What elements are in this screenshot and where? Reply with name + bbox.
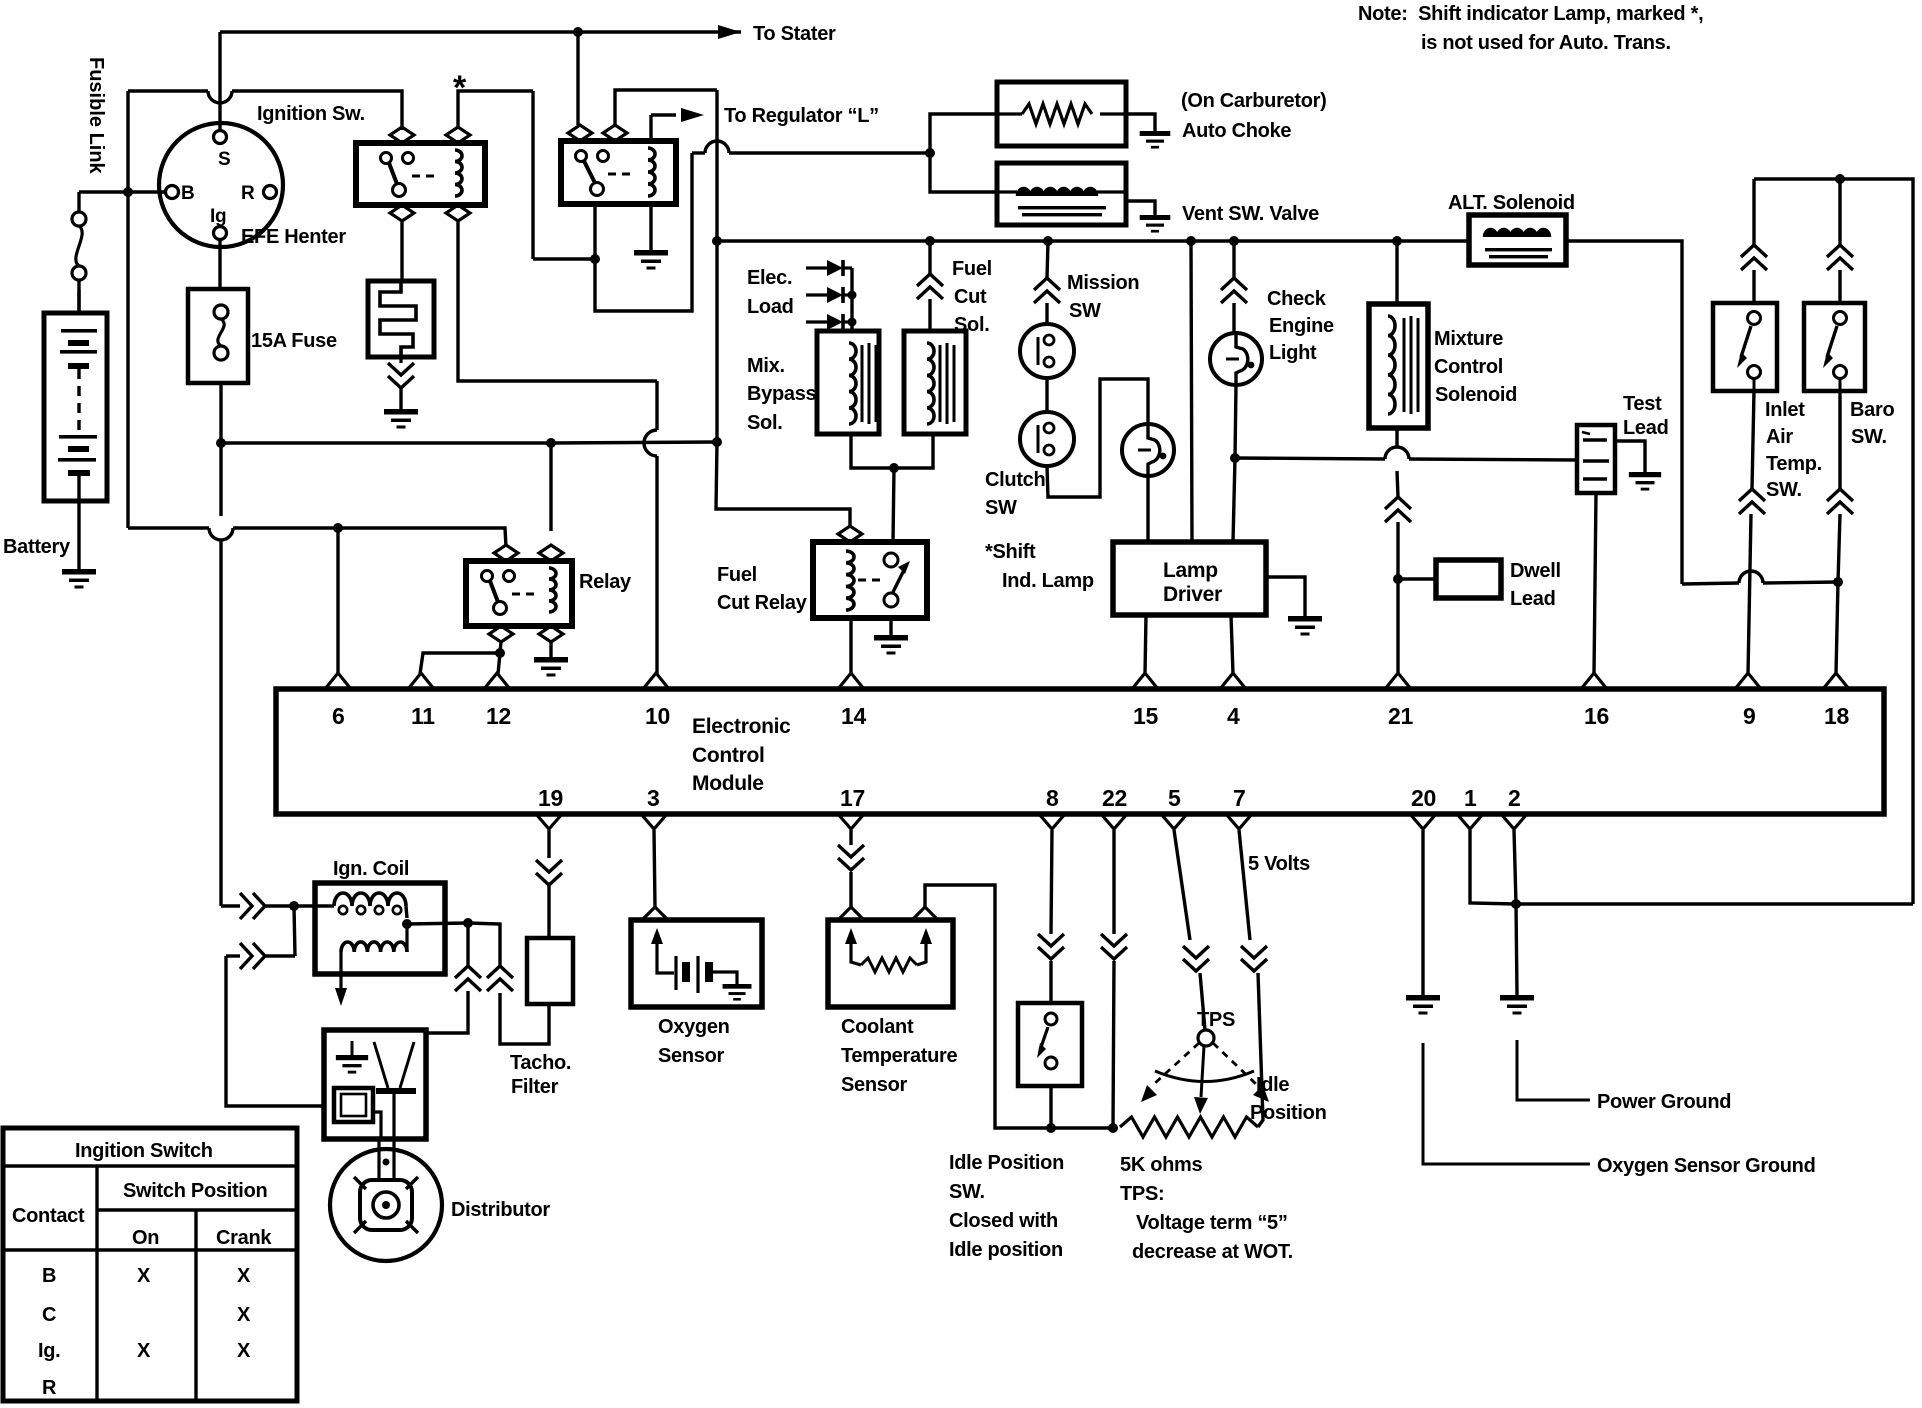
relay K3 body bbox=[466, 545, 572, 642]
label Ignition Sw. bbox=[257, 103, 365, 125]
wire mixture down3 bbox=[1396, 522, 1399, 579]
wire mixture down2 bbox=[1397, 471, 1398, 497]
label Fuel bbox=[717, 564, 757, 586]
wire coil feed2 bbox=[266, 904, 294, 907]
node dwell bbox=[1393, 574, 1403, 584]
pin 10 top bbox=[643, 673, 670, 729]
inlet air temp switch SW4 bbox=[1713, 303, 1777, 391]
igniter transistor symbol bbox=[374, 1042, 416, 1139]
node y153 choke branch bbox=[925, 148, 935, 158]
wire node down and right bbox=[595, 153, 692, 311]
wire lampdriver pin15 bbox=[1145, 615, 1146, 674]
label Vent SW. Valve bbox=[1182, 203, 1319, 225]
node bus checkengine bbox=[1229, 236, 1239, 246]
label Ign. Coil bbox=[333, 858, 409, 880]
node sol join bbox=[889, 463, 899, 473]
oxygen sensor B2 body bbox=[631, 920, 762, 1007]
node idle sw bbox=[1046, 1123, 1056, 1133]
wire relayA diamond2 down bbox=[458, 221, 657, 381]
ground battery bbox=[62, 569, 96, 589]
wire baro drop2 bbox=[1838, 270, 1841, 303]
wire bulb to node bbox=[1235, 385, 1236, 458]
wire y528 left bbox=[128, 526, 209, 529]
TPS wiper bbox=[1141, 1030, 1269, 1114]
arrow HT lead bbox=[335, 976, 347, 1006]
wire left riser x128 bbox=[126, 91, 129, 192]
wire second feed2 bbox=[266, 954, 295, 957]
fuse 15A bbox=[188, 289, 248, 383]
svg-text:11: 11 bbox=[411, 703, 435, 729]
wire x533 to relayB node bbox=[533, 257, 595, 260]
wire hop over x1397 bbox=[1385, 447, 1409, 459]
ground pin20 bbox=[1406, 995, 1440, 1015]
svg-text:To Stater: To Stater bbox=[753, 23, 836, 45]
wire fuelcutsol out bbox=[894, 434, 933, 468]
wire dwell stub bbox=[1398, 577, 1436, 580]
ground EFE bbox=[384, 409, 418, 429]
node B junction bbox=[123, 187, 133, 197]
ground relay K3 bbox=[534, 657, 568, 677]
wire inlet drop2 bbox=[1752, 270, 1755, 303]
table Crank bbox=[216, 1227, 272, 1249]
svg-text:(On Carburetor): (On Carburetor) bbox=[1181, 90, 1327, 112]
wire inlet bottom bbox=[1752, 391, 1754, 489]
svg-text:5 Volts: 5 Volts bbox=[1248, 853, 1310, 875]
wire y443 to x717 bbox=[551, 442, 717, 443]
oxygen sensor pin triangle bbox=[642, 907, 668, 920]
wire relay right diamond up bbox=[549, 443, 552, 531]
wire mission drop bbox=[1047, 241, 1048, 278]
chevrons pin7 bbox=[1241, 946, 1267, 971]
label decrease bbox=[1132, 1241, 1293, 1263]
tacho filter FL1 bbox=[527, 938, 573, 1004]
wire inlet drop bbox=[1752, 179, 1755, 245]
svg-text:*: * bbox=[453, 69, 467, 107]
igniter pickup square bbox=[334, 1088, 381, 1139]
svg-text:21: 21 bbox=[1388, 703, 1413, 729]
svg-text:B: B bbox=[42, 1265, 56, 1287]
clutch switch SW3 bbox=[1020, 412, 1074, 466]
label Power Ground bbox=[1597, 1091, 1731, 1113]
wire y528 right bbox=[233, 528, 506, 547]
chevrons second feed bbox=[240, 943, 265, 969]
svg-text:19: 19 bbox=[538, 785, 563, 811]
label Check bbox=[1267, 288, 1327, 310]
svg-text:6: 6 bbox=[332, 703, 345, 729]
wire igniter to distributor bbox=[379, 1139, 394, 1180]
label EFE Henter bbox=[241, 226, 346, 248]
pin 9 top bbox=[1735, 673, 1761, 729]
pin 15 top bbox=[1132, 673, 1158, 729]
svg-text:R: R bbox=[241, 183, 255, 204]
label Control bbox=[692, 744, 765, 767]
svg-text:Light: Light bbox=[1269, 342, 1317, 364]
svg-text:Air: Air bbox=[1766, 426, 1793, 448]
chevrons tacho up bbox=[487, 966, 513, 991]
wire node to pin11 bbox=[420, 653, 500, 674]
svg-text:Baro: Baro bbox=[1850, 399, 1894, 421]
label Electronic bbox=[692, 715, 791, 738]
pin 16 top bbox=[1581, 673, 1609, 729]
wire pin7 down2 bbox=[1258, 973, 1263, 1127]
label Bypass bbox=[747, 383, 817, 405]
wire x657 lower to pin10 bbox=[655, 456, 658, 674]
wire vent branch down bbox=[930, 153, 997, 192]
svg-text:Check: Check bbox=[1267, 288, 1327, 310]
wire ign B horizontal bbox=[79, 190, 165, 193]
relay K2 body bbox=[561, 125, 676, 204]
pin 7 bottom bbox=[1226, 785, 1252, 829]
svg-text:*Shift: *Shift bbox=[985, 541, 1036, 563]
wire relayB left diamond up bbox=[576, 32, 579, 125]
diode D1 bbox=[806, 260, 852, 276]
svg-text:Filter: Filter bbox=[511, 1076, 559, 1098]
svg-text:Control: Control bbox=[692, 744, 765, 767]
wire fuelcut relay sw to ground bbox=[889, 618, 892, 635]
wire clutch to shift lamp bbox=[1047, 379, 1148, 497]
wire igniter drop bbox=[226, 956, 324, 1106]
lamp driver U2 bbox=[1113, 542, 1266, 615]
svg-text:Oxygen Sensor Ground: Oxygen Sensor Ground bbox=[1597, 1155, 1815, 1177]
wire x533 down bbox=[531, 91, 534, 259]
wire y153 left bbox=[692, 151, 705, 154]
chevrons mission bbox=[1034, 278, 1060, 303]
wire hop y528 over x221 bbox=[209, 528, 233, 540]
label Sensor(ct) bbox=[841, 1074, 908, 1096]
wire test lead run left bbox=[1235, 458, 1385, 459]
node bus mission bbox=[1043, 236, 1053, 246]
chevrons inlet top bbox=[1741, 245, 1767, 270]
chevrons pin5 bbox=[1183, 946, 1209, 971]
node y179 bbox=[1835, 174, 1845, 184]
wire mission drop2 bbox=[1045, 303, 1048, 324]
fuel cut solenoid L4 bbox=[904, 331, 966, 434]
node relay pin12 bbox=[495, 648, 505, 658]
wire lampdriver to ground bbox=[1266, 577, 1305, 616]
svg-text:14: 14 bbox=[841, 703, 866, 729]
svg-text:Engine: Engine bbox=[1269, 315, 1334, 337]
label Coolant bbox=[841, 1016, 914, 1038]
label Inlet bbox=[1765, 399, 1805, 421]
wire pin8 down2 bbox=[1049, 961, 1052, 1003]
wire x657 upper bbox=[655, 381, 658, 430]
wire fuelcut sol drop2 bbox=[928, 299, 931, 331]
svg-text:EFE Henter: EFE Henter bbox=[241, 226, 346, 248]
svg-text:Temperature: Temperature bbox=[841, 1045, 958, 1067]
svg-text:12: 12 bbox=[486, 703, 511, 729]
label SW. bbox=[949, 1181, 985, 1203]
svg-text:Clutch: Clutch bbox=[985, 469, 1045, 491]
pin 14 top bbox=[838, 673, 866, 729]
table Ig on X bbox=[137, 1340, 151, 1362]
label Control bbox=[1434, 356, 1503, 378]
svg-text:Coolant: Coolant bbox=[841, 1016, 914, 1038]
wire pin17 down2 bbox=[849, 872, 852, 907]
table Ingition Switch frame bbox=[3, 1128, 297, 1401]
chevrons pin19 bbox=[536, 860, 562, 885]
wire ign Ig to fuse bbox=[218, 240, 221, 289]
node diode2 bbox=[848, 291, 857, 300]
asterisk mark bbox=[453, 69, 467, 107]
ground pin2 bbox=[1500, 995, 1534, 1015]
svg-text:1: 1 bbox=[1464, 785, 1477, 811]
svg-text:4: 4 bbox=[1227, 703, 1240, 729]
wire mixture feed bbox=[1395, 241, 1398, 304]
label TPS bbox=[1197, 1009, 1235, 1031]
label Mission bbox=[1067, 272, 1139, 294]
wire feed into coil bbox=[294, 904, 328, 907]
svg-text:Control: Control bbox=[1434, 356, 1503, 378]
wire y153 right bbox=[729, 151, 930, 154]
svg-text:Inlet: Inlet bbox=[1765, 399, 1805, 421]
table B crank X bbox=[237, 1265, 251, 1287]
svg-text:is not used for Auto. Trans.: is not used for Auto. Trans. bbox=[1421, 32, 1671, 54]
wire relay out left bbox=[500, 642, 501, 653]
svg-text:R: R bbox=[42, 1377, 57, 1399]
wire coil common out bbox=[407, 923, 468, 924]
svg-text:Crank: Crank bbox=[216, 1227, 272, 1249]
pin 17 bottom bbox=[838, 785, 865, 829]
wire relayB coil to regulator riser bbox=[649, 115, 652, 141]
svg-text:Oxygen: Oxygen bbox=[658, 1016, 730, 1038]
svg-text:Driver: Driver bbox=[1163, 583, 1222, 606]
svg-text:X: X bbox=[237, 1340, 251, 1362]
label SW.(baro) bbox=[1851, 426, 1887, 448]
EFE heater R-EFE bbox=[368, 281, 434, 357]
svg-text:X: X bbox=[137, 1340, 151, 1362]
idle position switch SW6 bbox=[1018, 1003, 1082, 1086]
label Filter bbox=[511, 1076, 559, 1098]
label Cut(sol) bbox=[954, 286, 987, 308]
arrow to regulator L bbox=[681, 108, 704, 122]
label Air bbox=[1766, 426, 1793, 448]
wire pin2 down bbox=[1514, 830, 1516, 904]
svg-text:ALT. Solenoid: ALT. Solenoid bbox=[1448, 192, 1575, 214]
wire check engine drop bbox=[1232, 241, 1235, 278]
pin 21 top bbox=[1385, 673, 1413, 729]
svg-text:2: 2 bbox=[1508, 785, 1521, 811]
label Test bbox=[1623, 393, 1662, 415]
svg-text:Mission: Mission bbox=[1067, 272, 1139, 294]
svg-text:Electronic: Electronic bbox=[692, 715, 791, 738]
wire lampdriver pin4 bbox=[1231, 615, 1233, 674]
wire check engine drop2 bbox=[1232, 303, 1235, 333]
node bus fuelcut bbox=[925, 236, 935, 246]
svg-text:Voltage term “5”: Voltage term “5” bbox=[1136, 1212, 1288, 1234]
test lead connector J1 bbox=[1577, 425, 1615, 493]
table row C bbox=[42, 1304, 56, 1326]
label Lamp bbox=[1163, 559, 1218, 582]
wire pin19 down bbox=[547, 830, 550, 858]
chevrons EFE down bbox=[388, 363, 414, 388]
label Light bbox=[1269, 342, 1317, 364]
node coil common bbox=[402, 919, 412, 929]
wire pin22 down bbox=[1112, 830, 1115, 934]
svg-text:X: X bbox=[237, 1265, 251, 1287]
label Solenoid bbox=[1435, 384, 1517, 406]
wire choke branch up bbox=[930, 114, 997, 153]
svg-text:Closed with: Closed with bbox=[949, 1210, 1058, 1232]
label Lead bbox=[1510, 588, 1555, 610]
wire x717 to relay coil bbox=[716, 442, 850, 527]
node check engine bbox=[1230, 453, 1240, 463]
node relayB bottom left bbox=[590, 254, 600, 264]
wire second feed bbox=[226, 954, 240, 957]
wire mission to clutch bbox=[1045, 378, 1048, 412]
pin 20 bottom bbox=[1410, 785, 1436, 829]
svg-text:Cut: Cut bbox=[954, 286, 987, 308]
label Module bbox=[692, 772, 764, 795]
svg-text:20: 20 bbox=[1411, 785, 1436, 811]
wire pin3 down bbox=[654, 830, 655, 907]
label Cut Relay bbox=[717, 592, 808, 614]
svg-text:Fuel: Fuel bbox=[952, 258, 992, 280]
wire right top feed bbox=[1754, 179, 1913, 904]
battery B1 bbox=[44, 290, 107, 501]
pin 2 bottom bbox=[1501, 785, 1527, 829]
svg-text:SW.: SW. bbox=[1851, 426, 1887, 448]
wire fuse to y443 node bbox=[219, 383, 222, 443]
diode D2 bbox=[806, 287, 852, 303]
fuel cut relay K4 body bbox=[813, 526, 927, 618]
label Idle(tps) bbox=[1256, 1074, 1289, 1096]
svg-text:Auto Choke: Auto Choke bbox=[1182, 120, 1291, 142]
svg-text:5: 5 bbox=[1168, 785, 1181, 811]
ALT solenoid L5 bbox=[1469, 215, 1566, 265]
label Fuel(sol) bbox=[952, 258, 992, 280]
label Sensor(o2) bbox=[658, 1045, 725, 1067]
pin 18 top bbox=[1823, 673, 1849, 729]
label SW.(inlet) bbox=[1766, 479, 1802, 501]
wire alt out bbox=[1566, 241, 1682, 584]
svg-text:15: 15 bbox=[1133, 703, 1158, 729]
label Oxygen bbox=[658, 1016, 730, 1038]
wire y584 right bbox=[1763, 582, 1838, 583]
svg-text:decrease at WOT.: decrease at WOT. bbox=[1132, 1241, 1293, 1263]
svg-text:Note: Shift indicator Lamp, m: Note: Shift indicator Lamp, marked *, bbox=[1358, 3, 1703, 25]
pin 22 bottom bbox=[1101, 785, 1127, 829]
svg-text:TPS:: TPS: bbox=[1120, 1183, 1164, 1205]
pin 3 bottom bbox=[641, 785, 667, 829]
ignition switch SW1 body bbox=[159, 123, 283, 247]
label Mix. bbox=[747, 355, 785, 377]
auto choke R2 bbox=[997, 82, 1126, 146]
svg-text:Test: Test bbox=[1623, 393, 1662, 415]
wire y584 left bbox=[1682, 583, 1739, 584]
distributor body bbox=[330, 1149, 442, 1261]
wire tacho up to coil node bbox=[468, 923, 500, 966]
svg-text:Mixture: Mixture bbox=[1434, 328, 1503, 350]
chevrons inlet bottom bbox=[1739, 489, 1765, 514]
wire pin2 bus right bbox=[1516, 902, 1913, 905]
wire fuelcut sol drop bbox=[928, 241, 931, 274]
wire coolant return bbox=[925, 885, 1051, 1128]
svg-text:Lead: Lead bbox=[1510, 588, 1555, 610]
fusible link F0 bbox=[72, 192, 86, 313]
label Baro bbox=[1850, 399, 1894, 421]
wire coil feed bbox=[221, 904, 240, 907]
label Dwell bbox=[1510, 560, 1561, 582]
node tps left bbox=[1108, 1123, 1118, 1133]
svg-text:Tacho.: Tacho. bbox=[510, 1052, 571, 1074]
pin 1 bottom bbox=[1457, 785, 1483, 829]
pin 19 bottom bbox=[536, 785, 563, 829]
note line 1 bbox=[1358, 3, 1703, 25]
table row R bbox=[42, 1377, 57, 1399]
svg-text:S: S bbox=[218, 149, 230, 170]
table C crank X bbox=[237, 1304, 251, 1326]
svg-text:Dwell: Dwell bbox=[1510, 560, 1561, 582]
wire battery to ground bbox=[77, 476, 80, 569]
mixture control solenoid L6 bbox=[1369, 304, 1428, 428]
wire EFE chev to ground bbox=[399, 388, 402, 409]
chevrons baro bottom bbox=[1827, 489, 1853, 514]
wire relayA to EFE bbox=[400, 221, 403, 281]
pin 4 top bbox=[1220, 673, 1246, 729]
node bus lampdriver bbox=[1186, 236, 1196, 246]
chevrons check engine bbox=[1221, 278, 1247, 303]
label Mixture bbox=[1434, 328, 1503, 350]
label TPS: bbox=[1120, 1183, 1164, 1205]
svg-text:Ignition Sw.: Ignition Sw. bbox=[257, 103, 365, 125]
wire y443 bbox=[221, 441, 551, 444]
svg-text:Elec.: Elec. bbox=[747, 267, 792, 289]
wire pin20 down bbox=[1421, 830, 1424, 995]
chevrons mixture bbox=[1385, 497, 1411, 522]
wire vent to ground bbox=[1126, 201, 1155, 215]
igniter module U3 body bbox=[324, 1030, 426, 1139]
svg-text:22: 22 bbox=[1102, 785, 1127, 811]
wire relayA right diamond up bbox=[458, 91, 533, 127]
mix bypass solenoid L3 bbox=[817, 331, 879, 434]
wire relayB coil to ground bbox=[649, 204, 652, 250]
wire node to fuelcut relay bbox=[893, 468, 894, 542]
wire fuelcut relay to pin14 bbox=[849, 618, 852, 674]
label Battery bbox=[3, 536, 71, 558]
wire pin5 down2 bbox=[1200, 973, 1205, 1030]
svg-text:SW: SW bbox=[985, 497, 1017, 519]
svg-text:X: X bbox=[237, 1304, 251, 1326]
svg-text:Position: Position bbox=[1250, 1102, 1327, 1124]
label On Carburetor bbox=[1181, 90, 1327, 112]
wire relay coil to ground bbox=[549, 642, 552, 657]
table Ig crank X bbox=[237, 1340, 251, 1362]
label terminal B bbox=[181, 183, 194, 204]
label Tacho. bbox=[510, 1052, 571, 1074]
svg-text:Lamp: Lamp bbox=[1163, 559, 1218, 582]
chevrons igniter up bbox=[455, 966, 481, 991]
wire S terminal bbox=[218, 32, 221, 130]
wire left riser x128 lower bbox=[126, 192, 129, 528]
chevrons pin17 bbox=[838, 845, 864, 870]
pin 12 top bbox=[484, 673, 511, 729]
wire pin8 down bbox=[1051, 830, 1052, 934]
diode D3 bbox=[806, 314, 852, 330]
wire pin5 down bbox=[1174, 830, 1190, 940]
relay K1 body bbox=[356, 127, 485, 221]
svg-text:Switch Position: Switch Position bbox=[123, 1180, 267, 1202]
svg-text:Contact: Contact bbox=[12, 1205, 85, 1227]
wire x221 below hop bbox=[219, 540, 222, 906]
wire hop x657 over y443 bbox=[644, 430, 657, 456]
svg-text:SW: SW bbox=[1069, 300, 1101, 322]
wire hop y153 over x717 bbox=[705, 141, 729, 153]
shift indicator lamp DS2 bbox=[1122, 424, 1174, 476]
leader power ground bbox=[1517, 1040, 1590, 1100]
svg-text:9: 9 bbox=[1743, 703, 1756, 729]
ground relayB bbox=[634, 250, 668, 270]
svg-text:3: 3 bbox=[647, 785, 660, 811]
